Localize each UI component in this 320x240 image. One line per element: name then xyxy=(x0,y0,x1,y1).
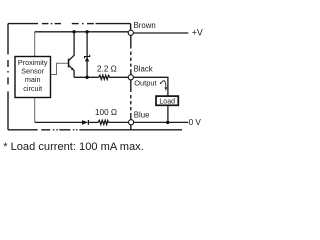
svg-text:circuit: circuit xyxy=(23,84,42,93)
svg-text:0 V: 0 V xyxy=(189,118,202,127)
svg-text:Output: Output xyxy=(134,79,156,88)
svg-text:100 Ω: 100 Ω xyxy=(95,108,117,117)
svg-text:Blue: Blue xyxy=(134,111,150,120)
svg-text:+V: +V xyxy=(192,27,203,37)
svg-text:Brown: Brown xyxy=(134,21,156,30)
svg-text:Black: Black xyxy=(134,65,153,74)
svg-text:* Load current: 100 mA max.: * Load current: 100 mA max. xyxy=(3,141,144,153)
svg-text:2.2 Ω: 2.2 Ω xyxy=(97,65,117,74)
svg-text:main: main xyxy=(25,75,41,84)
svg-text:Load: Load xyxy=(159,98,175,105)
